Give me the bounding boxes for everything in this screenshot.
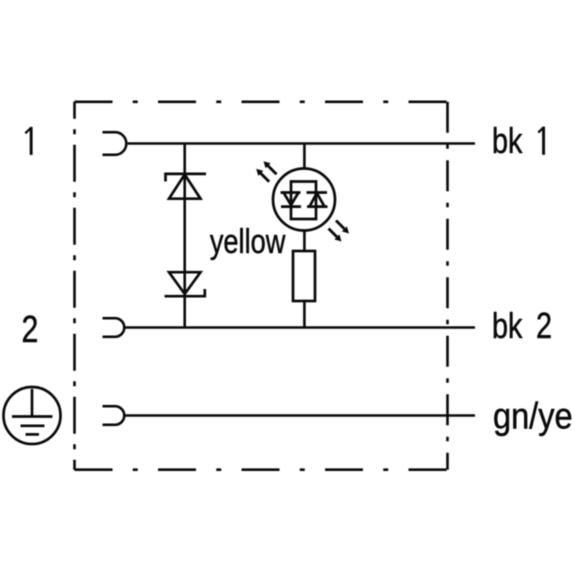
svg-text:gn/ye: gn/ye <box>493 396 573 437</box>
svg-text:bk: bk <box>492 120 523 161</box>
svg-text:bk 2: bk 2 <box>492 305 552 346</box>
svg-text:2: 2 <box>21 309 38 351</box>
svg-text:yellow: yellow <box>210 222 286 261</box>
